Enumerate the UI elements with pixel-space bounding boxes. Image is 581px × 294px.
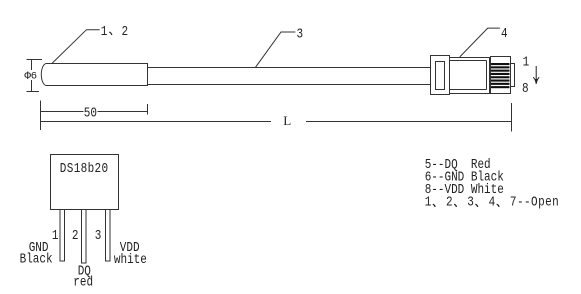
- svg-text:4: 4: [489, 195, 496, 210]
- svg-text:2: 2: [122, 24, 129, 39]
- svg-text:1: 1: [52, 228, 59, 243]
- svg-text:2: 2: [72, 228, 79, 243]
- svg-text:1: 1: [523, 54, 530, 69]
- svg-text:DS18b20: DS18b20: [60, 161, 109, 176]
- svg-text:Black: Black: [20, 251, 53, 266]
- svg-text:white: white: [114, 252, 147, 267]
- svg-text:L: L: [283, 113, 291, 128]
- svg-text:50: 50: [84, 105, 97, 120]
- svg-text:8: 8: [522, 81, 529, 96]
- svg-text:7--Open: 7--Open: [510, 195, 559, 210]
- svg-text:4: 4: [501, 26, 508, 41]
- svg-text:6: 6: [31, 71, 37, 83]
- svg-text:3: 3: [297, 26, 304, 41]
- svg-text:red: red: [73, 274, 93, 289]
- svg-text:3: 3: [467, 195, 474, 210]
- svg-text:1: 1: [425, 195, 432, 210]
- svg-text:2: 2: [446, 195, 453, 210]
- svg-text:1: 1: [101, 24, 108, 39]
- svg-text:3: 3: [95, 228, 102, 243]
